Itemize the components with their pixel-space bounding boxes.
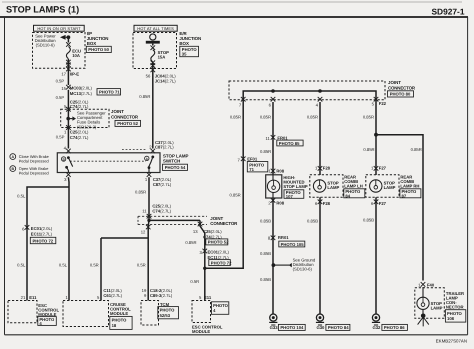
node: see ground branch dot: [272, 263, 276, 267]
see ground distribution note: [273, 258, 315, 272]
HIGH-MOUNTED STOP LAMP name: [283, 175, 307, 189]
lamp bulb R08: [267, 175, 279, 198]
wire D 0.85R: [363, 102, 376, 175]
svg-text:PHOTO 50: PHOTO 50: [88, 47, 109, 52]
connector pin 4 (switch input left): [64, 146, 71, 154]
PHOTO 4 box (right ESC): [212, 302, 229, 315]
svg-text:MC03(2.0L): MC03(2.0L): [70, 86, 93, 91]
svg-text:10A: 10A: [72, 53, 80, 58]
joint connector F22 bus: [243, 91, 376, 102]
svg-text:C61(2.7L): C61(2.7L): [103, 293, 122, 298]
svg-text:PHOTO 80: PHOTO 80: [390, 92, 411, 97]
svg-text:0.5R: 0.5R: [90, 263, 99, 268]
PHOTO 72 box (left): [30, 237, 56, 243]
svg-text:0.85R: 0.85R: [307, 114, 318, 119]
connector F22 pin 6: [269, 97, 276, 107]
E/R junction box (dashed): [133, 33, 177, 69]
PHOTO 108 box (trailer): [445, 310, 465, 322]
svg-text:(SD110-6): (SD110-6): [36, 42, 56, 47]
svg-text:0.5R: 0.5R: [137, 263, 146, 268]
connector F22 pin 4: [316, 97, 323, 107]
connector EC01/EC11 pin 3 (middle): [200, 249, 230, 260]
svg-text:PHOTO 84: PHOTO 84: [328, 325, 349, 330]
wire to cruise control pin 5: [100, 238, 102, 301]
wire 0.85R to EC01: [185, 233, 204, 301]
REAR COMBI LAMP LH name: [344, 175, 363, 189]
wire branch to F40: [376, 135, 423, 281]
svg-text:PHOTO 71: PHOTO 71: [99, 90, 120, 95]
connector C25/C74 pin 11: [142, 204, 171, 219]
svg-text:0.85R: 0.85R: [230, 192, 241, 197]
svg-text:PHOTO 105: PHOTO 105: [281, 242, 305, 247]
svg-text:Pedal Depressed: Pedal Depressed: [19, 171, 49, 176]
legend B open with brake pedal depressed: [10, 166, 49, 176]
PHOTO 72 box (middle): [209, 260, 232, 266]
ESC CONTROL MODULE name (right): [192, 324, 223, 334]
svg-text:0.5L: 0.5L: [17, 263, 26, 268]
CRUISE CONTROL MODULE name: [110, 302, 131, 316]
connector pin 17 I/P-E: [61, 67, 79, 77]
svg-text:71: 71: [249, 167, 254, 172]
legend A close with brake pedal depressed: [10, 154, 49, 164]
ground G33: [269, 314, 278, 330]
svg-text:EC11(2.7L): EC11(2.7L): [208, 255, 230, 260]
joint connector dashed box (fuse details): [61, 109, 109, 127]
page border left: [4, 17, 6, 335]
svg-text:F40: F40: [427, 282, 435, 287]
E/R JUNCTION BOX name: [179, 31, 201, 46]
connector pin 13 C25/C74: [193, 220, 222, 239]
PHOTO 84 box (G30): [326, 324, 350, 330]
svg-text:PHOTO 54: PHOTO 54: [165, 165, 186, 170]
svg-text:PHOTO 52: PHOTO 52: [117, 121, 138, 126]
svg-text:LAMP: LAMP: [431, 305, 443, 310]
svg-text:EC01(2.0L): EC01(2.0L): [31, 226, 53, 231]
title underline: [0, 16, 468, 18]
rear combi lamp RH dashed box: [366, 175, 399, 198]
rear combi lamp LH dashed box: [310, 175, 343, 198]
svg-text:11: 11: [266, 136, 271, 141]
svg-text:0.5L: 0.5L: [59, 263, 68, 268]
HOT IN ON OR START label box: [34, 25, 85, 31]
wire 0.85R to stop lamp switch: [139, 74, 153, 149]
svg-text:0.85B: 0.85B: [260, 277, 271, 282]
svg-text:I/P-E: I/P-E: [70, 71, 80, 76]
see passenger compartment fuse details note: [66, 110, 106, 129]
ESC CONTROL MODULE name (left): [38, 303, 59, 317]
svg-text:PHOTO 72: PHOTO 72: [211, 260, 232, 265]
svg-text:0.85B: 0.85B: [363, 218, 374, 223]
svg-text:0.5P: 0.5P: [56, 135, 65, 140]
page outer top faint line: [2, 1, 462, 3]
svg-text:MC13(2.7L): MC13(2.7L): [70, 91, 93, 96]
connector EC01/EC11 pin 6 (left): [22, 225, 53, 236]
svg-text:C74(2.7L): C74(2.7L): [70, 104, 89, 109]
wire switch pin 1 down to joint connector: [135, 177, 149, 220]
svg-text:E11: E11: [29, 295, 37, 300]
svg-text:PHOTO 72: PHOTO 72: [33, 238, 54, 243]
TRAILER LAMP CONNECTOR name: [446, 291, 464, 310]
connector R08 pin 2: [268, 198, 284, 206]
page border right: [467, 17, 469, 335]
ESC control module box (right, dashed): [192, 301, 211, 323]
svg-text:F27: F27: [379, 201, 387, 206]
svg-text:STOP LAMPS (1): STOP LAMPS (1): [6, 5, 79, 15]
svg-text:0.85R: 0.85R: [260, 149, 271, 154]
svg-text:JC04(2.0L): JC04(2.0L): [155, 73, 177, 78]
connector C25/C74 pin 5 (into joint connector): [64, 99, 89, 116]
svg-text:CONNECTOR: CONNECTOR: [210, 221, 238, 226]
wire from joint connector pin 12 to TCM: [147, 220, 150, 300]
chassis ground (trailer): [418, 317, 429, 326]
svg-text:A: A: [11, 155, 14, 159]
trailer lamp connector dashed box: [415, 288, 445, 319]
connector R08 pin 1: [268, 168, 284, 173]
connector F28 pin 1: [315, 165, 331, 170]
lamp bulb F27 stop lamp: [370, 180, 396, 192]
PHOTO 50 box: [86, 46, 111, 52]
svg-text:0.85R: 0.85R: [411, 147, 422, 152]
wire B 0.85B: [260, 198, 273, 314]
svg-text:BOX: BOX: [179, 41, 189, 46]
svg-text:NECTOR: NECTOR: [446, 305, 464, 310]
svg-text:0.85B: 0.85B: [307, 219, 318, 224]
PHOTO 84 box (F28): [344, 189, 365, 199]
dashed segment above box: [122, 149, 147, 151]
wire A lower 0.85R joining ESC wire: [205, 158, 243, 268]
wire branch to ESC module (left): [27, 187, 69, 301]
svg-text:11: 11: [142, 209, 147, 214]
JOINT CONNECTOR name (middle): [210, 216, 238, 226]
svg-text:HOT IN ON OR START: HOT IN ON OR START: [37, 26, 81, 31]
wire to cruise control pin 1: [68, 187, 70, 301]
pins 19/9 C18-2/C89-3: [142, 288, 173, 298]
svg-text:SD927-1: SD927-1: [431, 6, 464, 16]
svg-text:JOINT: JOINT: [111, 109, 124, 114]
I/P JUNCTION BOX name: [87, 31, 109, 46]
svg-text:F27: F27: [379, 165, 387, 170]
svg-text:0.85R: 0.85R: [185, 240, 196, 245]
svg-text:PHOTO 85: PHOTO 85: [279, 141, 300, 146]
switch coupling dashed line: [70, 160, 146, 162]
svg-text:LAMP RH: LAMP RH: [400, 184, 419, 189]
wire C 0.85B to ground: [307, 197, 320, 314]
svg-text:JOINT: JOINT: [210, 216, 223, 221]
svg-text:C74(2.7L): C74(2.7L): [70, 135, 89, 140]
connector F28 pin 6: [315, 200, 331, 207]
svg-text:15A: 15A: [158, 55, 166, 60]
page border bottom: [5, 334, 468, 336]
svg-text:C87(2.7L): C87(2.7L): [155, 145, 174, 150]
PHOTO 35 box: [180, 46, 199, 56]
connector pin 12: [141, 225, 151, 235]
svg-text:C89-3(2.7L): C89-3(2.7L): [150, 293, 173, 298]
svg-text:LAMP: LAMP: [327, 185, 339, 190]
svg-text:EKMB27S07AN: EKMB27S07AN: [436, 339, 467, 344]
svg-text:FR01: FR01: [277, 135, 288, 140]
svg-text:F22: F22: [379, 101, 387, 106]
svg-text:R08: R08: [276, 201, 284, 206]
svg-text:C87(2.7L): C87(2.7L): [153, 182, 172, 187]
svg-text:CONNECTOR: CONNECTOR: [111, 115, 139, 120]
svg-text:PHOTO 86: PHOTO 86: [384, 325, 405, 330]
svg-text:(SD130-6): (SD130-6): [293, 267, 313, 272]
connector C25/C74 pin 1 (out of joint connector): [64, 125, 89, 140]
node: branch dot to trailer connector: [374, 133, 378, 137]
svg-text:BOX: BOX: [87, 41, 97, 46]
HOT AT ALL TIMES label box: [134, 25, 177, 31]
wire B 0.85R: [260, 102, 273, 136]
node: I/P fuse feed dot: [67, 35, 71, 39]
connector EF01 pin 7: [238, 157, 258, 163]
pin 5 C11/C61: [97, 288, 123, 300]
high-mounted stop lamp box R08: [266, 175, 282, 198]
svg-text:0.85R: 0.85R: [230, 114, 241, 119]
fusible link bar: [146, 41, 160, 44]
svg-text:LAMP LH: LAMP LH: [344, 184, 363, 189]
switch contact A (right): [145, 156, 155, 173]
wire 0.5P: [56, 90, 69, 104]
fuse STOP 15A: [151, 44, 170, 68]
connector pin 1 C37/C87 (switch output right): [145, 172, 172, 187]
svg-text:107: 107: [286, 194, 294, 199]
connector F27 pin 1: [371, 165, 387, 170]
svg-text:0.5P: 0.5P: [56, 79, 65, 84]
svg-text:EF01: EF01: [247, 157, 258, 162]
node: bus dot wire C: [318, 89, 322, 93]
node: bus dot wire B: [271, 89, 275, 93]
PHOTO 105 box (RR01): [279, 241, 305, 247]
wire C 0.85R: [307, 102, 320, 175]
svg-text:0.85B: 0.85B: [260, 219, 271, 224]
connector MC03/MC13 pin 15: [61, 85, 92, 96]
svg-text:HOT AT ALL TIMES: HOT AT ALL TIMES: [137, 26, 174, 31]
lamp bulb trailer stop lamp: [417, 287, 443, 310]
svg-text:13: 13: [193, 229, 198, 234]
switch contact B (left): [61, 156, 72, 172]
svg-text:52/53: 52/53: [160, 313, 171, 318]
svg-text:JC14(2.7L): JC14(2.7L): [155, 79, 177, 84]
connector pin 56 JC04/JC14: [146, 67, 177, 84]
wire 0.5P: [56, 72, 69, 85]
svg-text:17: 17: [61, 71, 66, 76]
svg-text:18: 18: [112, 323, 117, 328]
svg-text:0.85R: 0.85R: [363, 114, 374, 119]
svg-text:0.85B: 0.85B: [260, 251, 271, 256]
svg-text:0.85R: 0.85R: [363, 147, 374, 152]
ground G30: [316, 314, 325, 330]
wire from pin 3 down to junction: [67, 177, 70, 187]
node: bus junction dot: [147, 219, 150, 222]
svg-text:0.85R: 0.85R: [260, 114, 271, 119]
I/P junction box (dashed): [33, 33, 86, 69]
svg-text:84: 84: [345, 193, 350, 198]
wire B 0.85R to R08: [260, 136, 273, 175]
connector F22 pin 5: [372, 97, 387, 106]
svg-text:G32: G32: [372, 325, 381, 330]
PHOTO 18 box: [110, 316, 132, 329]
trailer ground node dot: [421, 309, 426, 318]
svg-text:PHOTO 104: PHOTO 104: [280, 325, 304, 330]
svg-text:TCM: TCM: [160, 302, 170, 307]
pin 21 E11: [21, 295, 37, 300]
connector F27 pin 6: [371, 200, 387, 207]
svg-text:G33: G33: [270, 325, 279, 330]
PHOTO 80 box: [388, 91, 414, 97]
svg-text:35: 35: [182, 52, 187, 57]
wire A 0.85R: [230, 102, 243, 158]
wire branch to cruise pin 5: [101, 237, 148, 239]
connector pin 2 C37/C87: [149, 140, 174, 153]
PHOTO 104 box (G33): [278, 324, 305, 330]
joint connector F22 dashed box: [229, 81, 385, 100]
JOINT CONNECTOR name (left): [111, 109, 139, 120]
svg-text:21: 21: [21, 295, 26, 300]
REAR COMBI LAMP RH name: [400, 175, 419, 189]
fuse ECU 10A: [66, 37, 81, 67]
svg-text:C25(2.0L): C25(2.0L): [70, 130, 89, 135]
ground G32: [372, 314, 381, 330]
STOP LAMP SWITCH name: [163, 154, 189, 164]
PHOTO 107 box: [284, 190, 304, 199]
svg-text:R08: R08: [276, 168, 284, 173]
PHOTO 87 box (F27): [400, 189, 421, 199]
joint connector dashed box (middle): [138, 216, 207, 224]
svg-text:0.5P: 0.5P: [56, 95, 65, 100]
PHOTO 71 box (EF01): [247, 162, 267, 173]
connector RR01 pin 8: [268, 235, 289, 240]
ESC control module box (left, dashed): [8, 301, 37, 323]
svg-text:EC11(2.7L): EC11(2.7L): [31, 232, 53, 237]
PHOTO 86 box (G32): [382, 324, 408, 330]
node: wire A joins ESC wire: [203, 267, 206, 270]
PHOTO 4 box (left ESC): [38, 317, 57, 326]
joint connector bus (middle): [149, 219, 200, 221]
svg-text:0.5L: 0.5L: [17, 194, 26, 199]
PHOTO 52/53 box: [158, 307, 179, 319]
svg-text:PHOTO 52: PHOTO 52: [208, 240, 229, 245]
wire D 0.85B to ground: [363, 197, 376, 314]
svg-text:0.85R: 0.85R: [139, 94, 150, 99]
svg-text:15: 15: [61, 86, 66, 91]
svg-text:F28: F28: [323, 165, 331, 170]
wire through fuse-details joint connector: [67, 117, 69, 149]
svg-text:108: 108: [447, 316, 455, 321]
svg-text:MODULE: MODULE: [110, 311, 128, 316]
svg-text:87: 87: [402, 193, 407, 198]
PHOTO 52 box (middle): [206, 239, 229, 245]
PHOTO 54 box: [163, 164, 188, 170]
svg-text:C74(2.7L): C74(2.7L): [152, 209, 171, 214]
TCM box (dashed): [141, 301, 159, 326]
stop lamp switch box: [57, 153, 160, 173]
lamp bulb F28 stop lamp: [313, 180, 339, 192]
JOINT CONNECTOR name (F22): [388, 80, 416, 90]
connector F40 pin 1: [418, 282, 435, 288]
svg-text:SWITCH: SWITCH: [163, 159, 180, 164]
svg-text:E11: E11: [204, 295, 212, 300]
connector F22 pin 7: [239, 97, 246, 107]
svg-text:0.5R: 0.5R: [190, 279, 199, 284]
svg-text:CONNECTOR: CONNECTOR: [388, 85, 416, 90]
svg-text:12: 12: [141, 230, 146, 235]
svg-text:G30: G30: [316, 325, 325, 330]
svg-text:STOP LAMP: STOP LAMP: [283, 184, 307, 189]
PHOTO 52 box (left joint connector): [115, 120, 141, 126]
svg-text:0.85R: 0.85R: [135, 190, 146, 195]
svg-text:Pedal Depressed: Pedal Depressed: [19, 159, 49, 164]
PHOTO 85 box (FR01): [277, 140, 303, 146]
PHOTO 71 box (MC03): [97, 89, 121, 95]
svg-text:B: B: [11, 167, 14, 171]
connector FR01 pin 11: [266, 135, 289, 141]
connector pin 3 (switch output left): [64, 172, 71, 182]
cruise control module box (dashed): [63, 301, 109, 327]
svg-text:LAMP: LAMP: [384, 185, 396, 190]
svg-text:RR01: RR01: [278, 235, 289, 240]
svg-text:56: 56: [146, 73, 151, 78]
svg-text:F28: F28: [323, 201, 331, 206]
see power distribution note: [35, 33, 69, 47]
svg-text:MODULE: MODULE: [192, 329, 210, 334]
pin 5 E11 (right ESC): [199, 295, 212, 300]
fusible link terminal circle: [150, 34, 156, 40]
